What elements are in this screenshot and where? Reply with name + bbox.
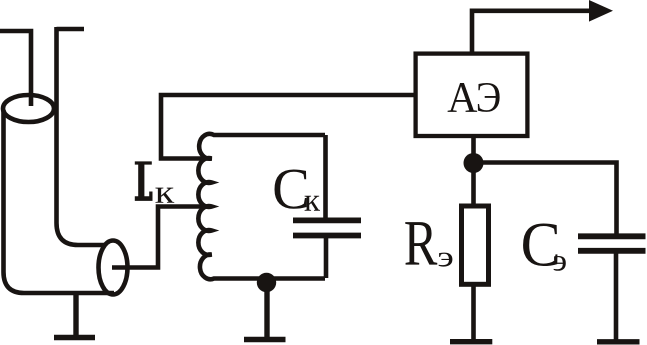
capacitor Ce top plate [578, 233, 646, 239]
node: emitter junction dot [464, 153, 484, 173]
wire: inner-conductor top lead of cavity resonator [0, 31, 31, 106]
node: junction dot on tank bottom wire [257, 273, 276, 292]
label Re : letter R [405, 222, 452, 266]
label Re : subscript e [439, 253, 453, 267]
wire: AE output up and right [472, 11, 591, 53]
wire: AE bottom to emitter node [471, 136, 476, 156]
ground (Re) [450, 339, 492, 344]
label AE : letter E [478, 83, 500, 112]
cavity resonator outer wall left side (bent elbow) [4, 110, 115, 293]
cavity resonator output mouth ellipse [99, 241, 128, 295]
wire: coupling output to lower tap of Lk [112, 207, 212, 268]
label AE : letter A [448, 83, 500, 112]
resistor Re body [462, 206, 489, 284]
wire: emitter node right to Ce top [474, 163, 617, 234]
ground (tank circuit) [244, 282, 286, 340]
capacitor Ce bottom plate [578, 248, 646, 254]
label Ce : subscript e [554, 256, 566, 271]
ground (Ce) [597, 339, 640, 344]
wire: emitter node down to Re [471, 163, 476, 206]
cavity resonator top ellipse [3, 95, 54, 122]
op-amp/active element box AE [416, 54, 528, 136]
wire: Re bottom to ground [471, 284, 476, 341]
capacitor Ck top plate [293, 217, 361, 223]
wire: upper tap of Lk up to rail feeding AE input [161, 95, 416, 159]
wire: tank right side from top wire down to Ck [323, 135, 328, 218]
wire: Ck bottom plate down to tank bottom wire [324, 236, 329, 279]
wire: Ce bottom plate to ground [614, 251, 619, 342]
wire: outer-conductor top lead of cavity resonator [57, 27, 85, 32]
label Lk : letter L (hand path) [135, 161, 174, 202]
capacitor Ck bottom plate [293, 233, 361, 239]
label Ck : letter C [275, 169, 320, 210]
label Ce : letter C [523, 223, 566, 270]
label Ck : subscript k [305, 196, 320, 211]
ground (cavity resonator) [54, 293, 95, 338]
arrowhead: output arrow [589, 0, 613, 22]
cavity resonator outer wall right side (bent elbow) [57, 27, 106, 245]
label Lk : subscript k [155, 188, 174, 203]
inductor Lk coil and tank top/bottom wires [198, 134, 325, 279]
